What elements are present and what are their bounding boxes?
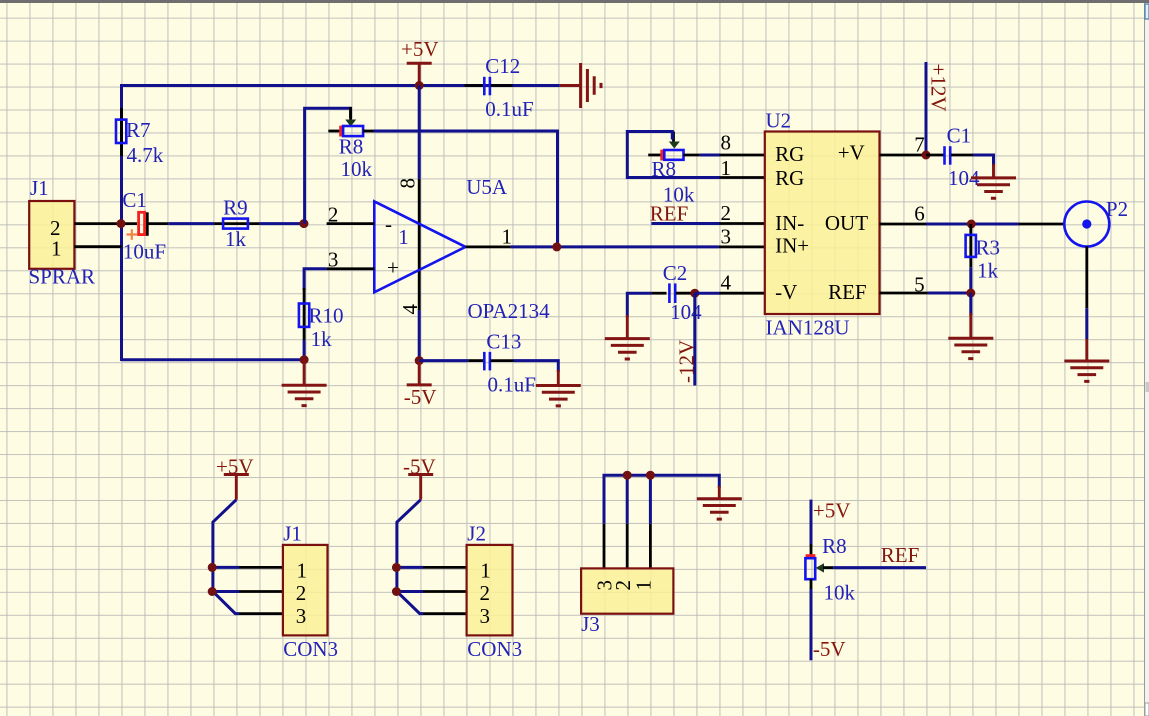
svg-text:2: 2: [328, 203, 339, 227]
pin J1.1: [74, 245, 121, 248]
wire pot to -5V: [810, 589, 813, 660]
svg-text:C12: C12: [485, 54, 520, 78]
wire top rail: [122, 86, 560, 362]
junction J2 pin2: [392, 587, 401, 596]
svg-text:+V: +V: [838, 141, 865, 165]
svg-text:IN+: IN+: [775, 234, 809, 258]
svg-text:U5A: U5A: [466, 175, 508, 199]
svg-text:R3: R3: [976, 236, 1001, 260]
svg-text:10k: 10k: [341, 157, 373, 181]
svg-text:3: 3: [296, 604, 307, 628]
svg-text:1: 1: [721, 156, 732, 180]
svg-text:C1: C1: [947, 124, 972, 148]
pin U2.4: [720, 292, 765, 295]
svg-text:2: 2: [296, 581, 307, 605]
svg-text:1: 1: [480, 559, 491, 583]
svg-text:1: 1: [632, 580, 656, 591]
svg-text:U2: U2: [766, 109, 792, 133]
svg-text:C2: C2: [663, 261, 688, 285]
svg-text:J3: J3: [581, 612, 600, 636]
svg-text:RG: RG: [775, 142, 804, 166]
pin J1.2: [74, 222, 137, 225]
power +12V: [926, 62, 951, 155]
pin U2.8: [720, 154, 765, 157]
svg-text:IN-: IN-: [775, 211, 804, 235]
wire +5V to opamp pin8: [418, 86, 421, 179]
svg-text:8: 8: [396, 178, 420, 189]
wire pin3 to R10: [304, 269, 327, 290]
ground under C1: [971, 164, 1016, 198]
power -5V: [404, 361, 437, 409]
pin J2.2: [423, 590, 467, 593]
wire -5V to J2 pins: [397, 500, 423, 614]
pin P2 bottom: [1085, 246, 1088, 308]
svg-text:OPA2134: OPA2134: [468, 299, 551, 323]
capacitor C2: [627, 261, 702, 324]
pin U2.3: [719, 245, 765, 248]
connector J3: [581, 568, 673, 636]
svg-text:-: -: [385, 212, 392, 236]
svg-text:1: 1: [398, 225, 409, 249]
svg-text:3: 3: [721, 225, 732, 249]
svg-text:R10: R10: [309, 304, 344, 328]
svg-text:R8: R8: [822, 534, 847, 558]
svg-text:+5V: +5V: [401, 37, 439, 61]
svg-text:R8: R8: [339, 135, 364, 159]
wire pin6 to P2: [926, 223, 1018, 226]
junction R3 top: [967, 220, 976, 229]
wire C13 to ground: [514, 361, 559, 372]
pin U2.1: [720, 176, 765, 179]
svg-text:J1: J1: [30, 176, 49, 200]
svg-text:2: 2: [721, 201, 732, 225]
power -12V: [675, 293, 699, 385]
svg-text:104: 104: [670, 300, 702, 324]
wire feedback loop left: [305, 108, 351, 223]
pin 8 line opamp: [418, 179, 421, 310]
junction output node: [552, 242, 561, 251]
wire left bottom rail: [122, 358, 305, 361]
ground under C13: [536, 370, 581, 406]
connector J2 CON3: [467, 522, 523, 662]
window chrome top edge: [0, 0, 1149, 3]
svg-text:10k: 10k: [824, 581, 856, 605]
resistor R10: [299, 288, 344, 351]
potentiometer R8 top: [328, 107, 373, 181]
IC U2 IAN128U: [765, 109, 880, 340]
ground at J3: [697, 486, 742, 519]
pin 4 to -5V junction: [418, 310, 421, 361]
ground right of C12 rotated: [560, 63, 601, 108]
junction +5V rail: [415, 81, 424, 90]
junction J1 pin2: [208, 587, 217, 596]
wire pin5 to R3: [928, 292, 971, 295]
resistor R9: [214, 196, 259, 252]
svg-text:OUT: OUT: [825, 211, 868, 235]
wire J3 bus top: [604, 475, 719, 524]
power +5V: [401, 37, 439, 86]
svg-text:REF: REF: [650, 202, 689, 226]
svg-text:2: 2: [480, 581, 491, 605]
window chrome right scrollbar: [1144, 3, 1149, 716]
junction R3 bottom: [966, 289, 975, 298]
ground under C2: [605, 315, 650, 359]
net label REF wire: [833, 566, 926, 569]
wire pot to pin8: [700, 154, 720, 157]
pin U2.7: [880, 154, 927, 157]
svg-text:P2: P2: [1106, 197, 1128, 221]
pin J1.1: [239, 566, 283, 569]
wire J2 pin1 stub: [397, 566, 423, 569]
svg-text:0.1uF: 0.1uF: [485, 97, 533, 121]
op-amp U5A: [374, 175, 550, 323]
pin U2.2: [720, 222, 765, 225]
power +5V at J1: [216, 455, 254, 500]
connector P2: [1064, 197, 1128, 247]
wire output node: [511, 245, 719, 248]
wire J1 pin2 stub: [213, 590, 239, 593]
wire P2 to ground: [1085, 308, 1088, 339]
svg-text:-V: -V: [775, 280, 797, 304]
resistor R7: [116, 108, 164, 167]
pin J2.3: [423, 612, 467, 615]
ground under R3: [948, 293, 993, 359]
svg-text:-12V: -12V: [675, 340, 699, 383]
svg-text:REF: REF: [828, 280, 867, 304]
wire feedback loop right: [374, 131, 558, 247]
wire R10 to ground: [303, 340, 306, 360]
wire junction to pin4: [695, 292, 720, 295]
wire C1 to ground: [973, 155, 994, 166]
wire -5V node to C13: [419, 359, 468, 362]
junction J3 pin1: [646, 471, 655, 480]
svg-text:1k: 1k: [225, 227, 247, 251]
svg-text:R9: R9: [223, 196, 248, 220]
wire REF to pin2: [651, 222, 719, 225]
pin J1.3: [239, 612, 283, 615]
pin J3.2: [626, 524, 629, 569]
svg-text:3: 3: [328, 248, 339, 272]
pin J3.1: [649, 524, 652, 569]
wire C1 to R9: [168, 222, 214, 225]
svg-text:CON3: CON3: [283, 637, 338, 661]
svg-text:1k: 1k: [977, 259, 999, 283]
svg-text:0.1uF: 0.1uF: [488, 373, 536, 397]
svg-text:J1: J1: [283, 522, 302, 546]
svg-text:REF: REF: [881, 543, 920, 567]
wire +5V to pot: [810, 500, 813, 546]
wire J3 pin2 riser: [626, 475, 629, 524]
pin U2.5: [880, 292, 928, 295]
svg-text:-5V: -5V: [813, 637, 846, 661]
svg-text:8: 8: [721, 131, 732, 155]
wire pot wiper loop to pin1: [627, 132, 719, 178]
svg-text:1: 1: [297, 559, 308, 583]
pin 2 opamp: [327, 222, 375, 225]
wire J3 pin1 riser: [649, 475, 652, 524]
junction opamp inverting node: [299, 219, 308, 228]
pin J2.1: [423, 566, 467, 569]
junction J3 pin2: [623, 471, 632, 480]
junction -5V node: [415, 356, 424, 365]
svg-text:5: 5: [914, 273, 925, 297]
svg-text:C1: C1: [122, 188, 147, 212]
svg-text:6: 6: [914, 202, 925, 226]
potentiometer R8 bottom: [805, 534, 855, 605]
junction at C1 input: [117, 219, 126, 228]
resistor R3: [966, 224, 1000, 283]
svg-text:1k: 1k: [311, 327, 333, 351]
junction C2 pin4 node: [690, 289, 699, 298]
svg-text:RG: RG: [775, 166, 804, 190]
connector J1 SPRAR: [29, 176, 96, 289]
connector J1 CON3: [283, 522, 338, 662]
svg-text:4.7k: 4.7k: [127, 143, 164, 167]
pin J3.3: [603, 524, 606, 569]
ground under P2: [1064, 339, 1109, 381]
pin J1.2: [239, 590, 283, 593]
svg-text:SPRAR: SPRAR: [29, 265, 96, 289]
pin 1 opamp output: [466, 245, 511, 248]
svg-text:10uF: 10uF: [123, 240, 166, 264]
svg-text:IAN128U: IAN128U: [766, 316, 850, 340]
capacitor C13: [468, 330, 536, 397]
svg-text:+5V: +5V: [813, 499, 851, 523]
svg-text:R7: R7: [126, 118, 151, 142]
svg-text:+: +: [387, 256, 399, 280]
ground under R10: [282, 360, 327, 406]
pin U2.6: [880, 223, 927, 226]
junction J2 pin1: [392, 563, 401, 572]
potentiometer R8 at U2: [648, 132, 699, 207]
svg-text:CON3: CON3: [467, 637, 522, 661]
wire R3 to pin5 node: [969, 267, 972, 293]
junction R10 ground node: [300, 355, 309, 364]
capacitor C12: [465, 54, 534, 121]
wire C12 to ground: [513, 84, 560, 87]
pin P2 left: [1018, 223, 1064, 226]
pin 3 opamp: [327, 267, 375, 270]
svg-text:4: 4: [721, 271, 732, 295]
capacitor C1 at +12V: [926, 124, 980, 191]
svg-text:-5V: -5V: [404, 385, 437, 409]
wire J1 pin1 stub: [213, 566, 239, 569]
svg-text:+12V: +12V: [927, 64, 951, 112]
junction pin7 +12V: [922, 151, 931, 160]
capacitor C1 polarized: [122, 188, 168, 264]
wire R9 to opamp junction: [260, 222, 305, 225]
wire +5V to J1 pins: [213, 500, 239, 614]
svg-text:J2: J2: [467, 522, 486, 546]
svg-text:1: 1: [51, 237, 62, 261]
power -5V at J2: [403, 455, 436, 500]
svg-text:1: 1: [502, 225, 513, 249]
svg-text:C13: C13: [486, 330, 521, 354]
junction J1 pin1: [208, 563, 217, 572]
wire J2 pin2 stub: [397, 590, 423, 593]
svg-text:3: 3: [480, 604, 491, 628]
